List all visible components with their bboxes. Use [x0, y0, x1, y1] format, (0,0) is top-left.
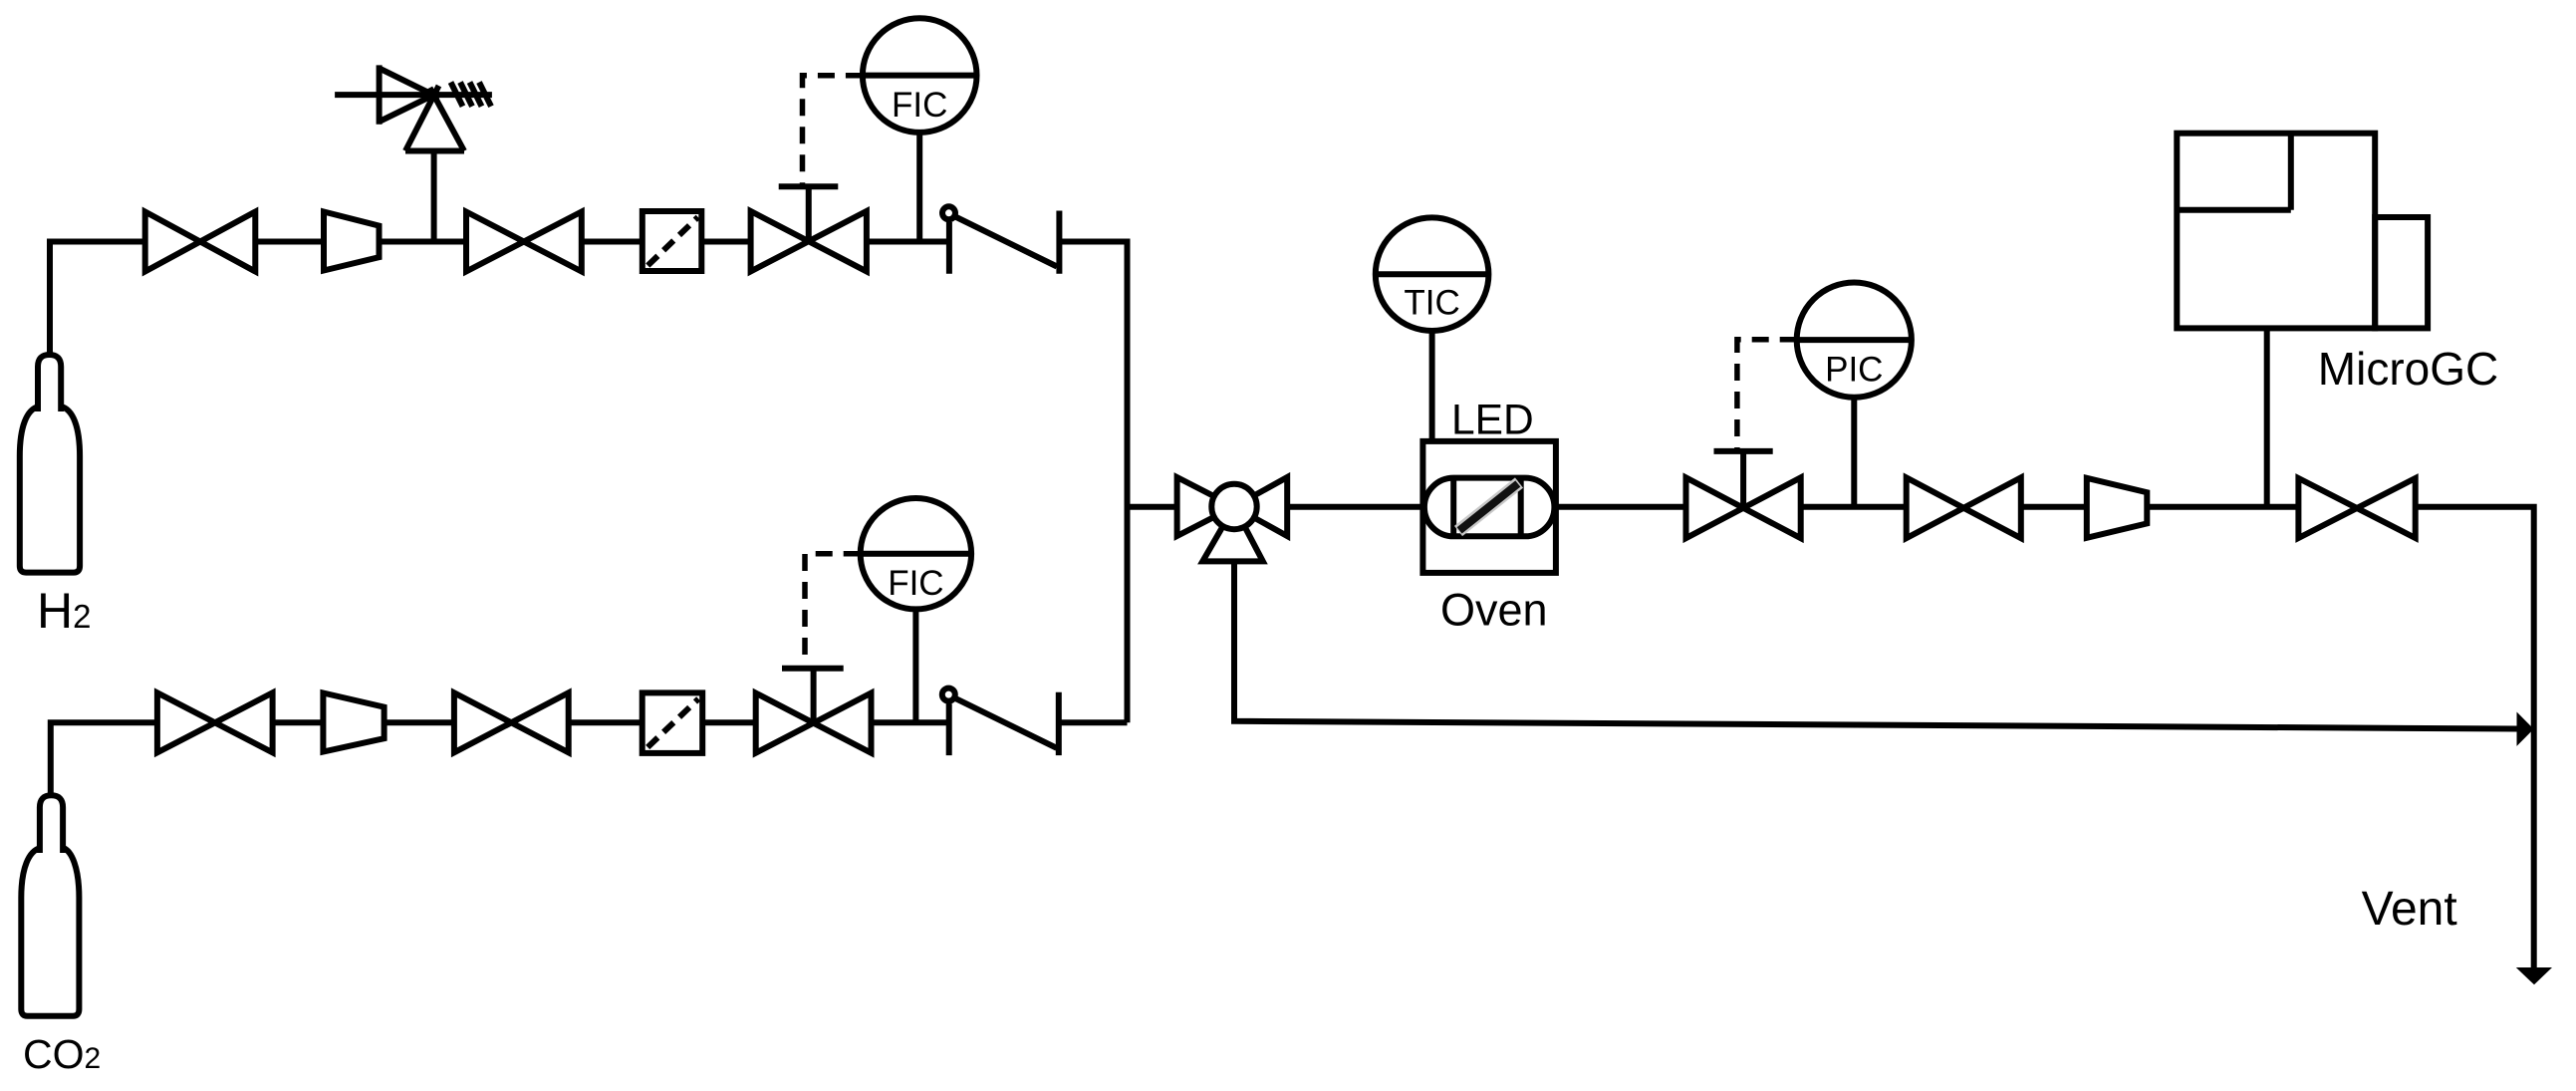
- wire FIC1 to process line: [916, 133, 922, 242]
- svg-text:MicroGC: MicroGC: [2318, 343, 2498, 395]
- quick connector (H2 line): [942, 206, 1059, 273]
- valve V2: [466, 212, 582, 272]
- valve V4: [454, 692, 569, 752]
- wire V4 to filter FL2: [569, 719, 643, 725]
- svg-text:TIC: TIC: [1404, 284, 1459, 323]
- wire FIC2 to process line: [912, 609, 918, 722]
- wire FL2 to control valve FCV2: [702, 719, 756, 725]
- reactor cell capsule: [1424, 478, 1555, 537]
- wire 3-way valve to vent bypass: [1234, 561, 2517, 728]
- pressure regulator R3: [2087, 478, 2148, 538]
- instrument PIC (pressure controller): [1797, 283, 1912, 398]
- instrument TIC (oven temperature controller): [1376, 217, 1489, 331]
- wire MicroGC sample line: [2264, 328, 2270, 506]
- wire R1 to valve V2: [380, 239, 467, 245]
- wire V5 to regulator R3: [2021, 504, 2087, 510]
- wire 3-way valve to oven: [1287, 504, 1424, 510]
- svg-text:Oven: Oven: [1440, 585, 1548, 636]
- filter FL2: [643, 692, 703, 753]
- wire TIC to oven: [1429, 331, 1435, 441]
- valve V6: [2298, 478, 2415, 538]
- svg-text:PIC: PIC: [1825, 351, 1883, 390]
- relief valve PSV (H2 line): [335, 65, 492, 241]
- signal line FIC2 to FCV2 (dashed): [805, 554, 861, 669]
- wire V2 to filter FL1: [582, 239, 643, 245]
- pressure regulator R2: [323, 693, 384, 752]
- MicroGC analyzer: [2177, 134, 2428, 329]
- wire mixing header to 3-way valve: [1128, 504, 1177, 510]
- CO2 gas cylinder: [21, 795, 79, 1015]
- control valve FCV2 (CO2 flow control): [756, 669, 872, 753]
- instrument FIC1 (H2 flow controller): [863, 18, 977, 133]
- wire H2 cylinder to valve V1: [50, 242, 145, 356]
- H2 gas cylinder: [20, 355, 80, 573]
- svg-text:FIC: FIC: [892, 86, 947, 125]
- wire oven to control valve PCV: [1554, 504, 1685, 510]
- wire FL1 to control valve FCV1: [701, 239, 750, 245]
- control valve FCV1 (H2 flow control): [751, 186, 867, 271]
- svg-text:LED: LED: [1451, 398, 1534, 444]
- signal line FIC1 to FCV1 (dashed): [803, 76, 863, 186]
- pressure regulator R1: [324, 212, 380, 271]
- svg-text:FIC: FIC: [888, 564, 943, 603]
- wire FCV2 to quick connector: [872, 719, 949, 725]
- oven box: [1422, 441, 1556, 573]
- valve V3 (CO2 cylinder shut-off): [157, 692, 273, 752]
- instrument FIC2 (CO2 flow controller): [861, 498, 971, 609]
- vent arrowhead: [2516, 967, 2552, 984]
- quick connector (CO2 line): [942, 688, 1059, 756]
- control valve PCV (pressure control): [1686, 451, 1801, 538]
- wire R2 to valve V4: [385, 719, 454, 725]
- filter FL1: [643, 211, 702, 271]
- signal line PIC to PCV (dashed): [1737, 340, 1797, 451]
- arrowhead bypass into vent header: [2517, 712, 2534, 746]
- svg-text:Vent: Vent: [2362, 883, 2457, 936]
- wire V1 to regulator R1: [255, 239, 324, 245]
- 3-way mixing valve: [1177, 477, 1288, 561]
- wire PIC to process line: [1851, 398, 1857, 507]
- wire V6 to vent: [2416, 507, 2534, 967]
- wire FCV1 to quick connector: [867, 239, 949, 245]
- wire PCV to valve V5: [1801, 504, 1907, 510]
- valve V5: [1907, 477, 2021, 538]
- wire quick connector CO2 to mixing header: [1059, 719, 1128, 725]
- wire CO2 cylinder to valve V3: [51, 722, 157, 795]
- valve V1 (H2 cylinder shut-off): [145, 212, 256, 272]
- wire R3 to valve V6: [2147, 504, 2298, 510]
- wire quick connector to mixing header: [1059, 242, 1127, 723]
- wire V3 to regulator R2: [273, 719, 324, 725]
